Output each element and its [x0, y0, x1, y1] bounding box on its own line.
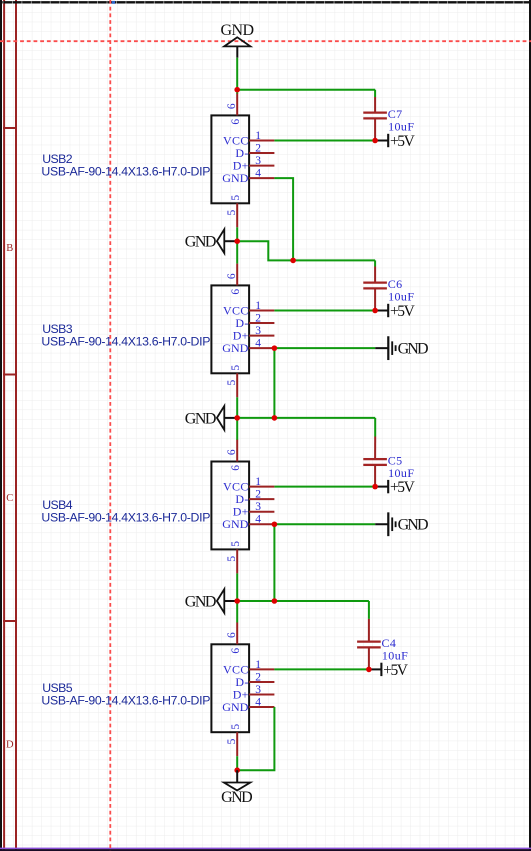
svg-text:5: 5 — [230, 365, 242, 371]
USB2 pin 6 stub — [236, 94, 238, 116]
junction C5/+5V/USB4 VCC — [372, 484, 378, 490]
capacitor C5 — [363, 459, 387, 465]
capacitor C7 top lead — [374, 97, 376, 113]
USB2 pin 4 stub — [249, 177, 274, 179]
USB2 pin 5 stub — [236, 203, 238, 227]
USB connector USB5 box — [211, 644, 249, 732]
svg-text:B: B — [6, 243, 13, 254]
wire: top GND to node A — [236, 58, 238, 90]
sheet frame right border — [529, 0, 531, 851]
svg-text:3: 3 — [255, 684, 261, 696]
svg-text:D: D — [6, 740, 14, 751]
USB5 pin 6 stub — [236, 623, 238, 645]
svg-text:2: 2 — [255, 671, 261, 683]
junction USB4 GND — [272, 521, 278, 527]
svg-text:GND: GND — [222, 341, 249, 355]
USB3 pin 2 stub — [249, 322, 274, 324]
USB5 pin 2 stub — [249, 681, 274, 683]
wire: node A to USB2 pin6 — [236, 90, 238, 94]
svg-text:4: 4 — [255, 338, 261, 350]
wire: USB3 VCC to C6/+5V — [274, 310, 375, 312]
svg-text:USB-AF-90-14.4X13.6-H7.0-DIP: USB-AF-90-14.4X13.6-H7.0-DIP — [41, 335, 210, 349]
USB3 pin 6 stub — [236, 264, 238, 286]
+5V supply symbol near C6 — [388, 303, 415, 320]
wire: USB5 pin5 to bottom node — [236, 756, 238, 770]
svg-text:+5V: +5V — [390, 303, 416, 320]
svg-text:3: 3 — [255, 325, 261, 337]
capacitor C4 bottom lead — [368, 647, 370, 669]
capacitor C5 top lead — [374, 437, 376, 460]
svg-text:6: 6 — [226, 103, 238, 109]
svg-text:2: 2 — [255, 489, 261, 501]
USB4 pin 1 stub — [249, 486, 274, 488]
junction C6/+5V/USB3 VCC — [372, 308, 378, 314]
svg-text:6: 6 — [230, 119, 242, 125]
USB4 pin 5 stub — [236, 549, 238, 573]
wire: node A to C7 branch — [237, 89, 375, 91]
wire: USB2 GND pin down to row B — [274, 178, 293, 260]
wire: USB2 pin5 to GND arrow node — [236, 227, 238, 241]
sheet frame left border — [0, 0, 2, 851]
svg-text:GND: GND — [222, 517, 249, 531]
+5V supply symbol near C4 — [381, 662, 408, 679]
junction row D / USB4 GND — [272, 598, 278, 604]
USB connector USB2 box — [211, 115, 249, 203]
capacitor C5 bottom lead — [374, 465, 376, 487]
frame inner red lines — [3, 0, 17, 851]
guide dashed vertical line — [109, 0, 111, 851]
USB3 pin 5 stub — [236, 373, 238, 397]
sheet frame bottom border — [0, 848, 531, 850]
svg-text:+5V: +5V — [390, 479, 416, 496]
ground symbol (top, arrow up) — [221, 22, 254, 58]
junction C7/+5V/USB2 VCC — [372, 138, 378, 144]
svg-text:5: 5 — [230, 195, 242, 201]
USB4 pin 3 stub — [249, 511, 274, 513]
wire: C7 top lead wire — [374, 90, 376, 97]
+5V supply symbol near C7 — [388, 133, 415, 150]
svg-text:1: 1 — [255, 476, 261, 488]
svg-text:2: 2 — [255, 142, 261, 154]
svg-text:6: 6 — [226, 449, 238, 455]
USB4 pin 2 stub — [249, 498, 274, 500]
ground symbol (arrow style, left) — [185, 229, 238, 253]
svg-text:USB-AF-90-14.4X13.6-H7.0-DIP: USB-AF-90-14.4X13.6-H7.0-DIP — [41, 165, 210, 179]
USB connector USB3 box — [211, 285, 249, 373]
ground symbol (arrow style, left) — [185, 406, 238, 430]
svg-text:4: 4 — [255, 168, 261, 180]
wire: USB4 GND to ground bar — [274, 523, 375, 525]
USB5 pin 3 stub — [249, 694, 274, 696]
svg-text:5: 5 — [226, 379, 238, 385]
junction node D (GND arrow 3) — [234, 598, 240, 604]
USB connector USB4 box — [211, 462, 249, 550]
svg-text:+5V: +5V — [383, 662, 409, 679]
wire: node C to USB4 pin6 — [236, 418, 238, 440]
+5V supply near C7 pin wire — [375, 140, 388, 142]
svg-text:5: 5 — [230, 541, 242, 547]
ground symbol (bar style) pin wire — [375, 523, 388, 525]
junction node C (GND arrow 2) — [234, 415, 240, 421]
ground symbol (arrow style, left) — [185, 589, 238, 613]
svg-text:1: 1 — [255, 659, 261, 671]
svg-text:6: 6 — [230, 289, 242, 295]
svg-text:GND: GND — [398, 517, 429, 534]
capacitor C7 bottom lead — [374, 118, 376, 140]
wire: USB3 GND to ground bar — [274, 347, 375, 349]
ground symbol (bar style) — [388, 512, 428, 536]
svg-text:GND: GND — [398, 341, 429, 358]
svg-text:USB-AF-90-14.4X13.6-H7.0-DIP: USB-AF-90-14.4X13.6-H7.0-DIP — [41, 511, 210, 525]
wire: C6 top lead wire — [374, 260, 376, 266]
wire: USB4 pin5 to node D — [236, 573, 238, 601]
junction node A (top) — [234, 87, 240, 93]
wire: USB4 GND down to row D — [273, 524, 275, 601]
svg-text:C: C — [6, 493, 13, 504]
junction row C / USB3 GND — [272, 415, 278, 421]
svg-text:6: 6 — [226, 273, 238, 279]
wire: USB4 VCC to C5/+5V — [274, 486, 375, 488]
USB5 pin 5 stub — [236, 732, 238, 756]
svg-text:6: 6 — [226, 632, 238, 638]
svg-text:GND: GND — [185, 410, 217, 427]
USB5 pin 1 stub — [249, 668, 274, 670]
capacitor C6 top lead — [374, 267, 376, 284]
capacitor C4 top lead — [368, 619, 370, 642]
wire: row C to C5 branch — [237, 417, 375, 419]
junction C4/+5V/USB5 VCC — [366, 667, 372, 673]
wire: USB3 GND down to row C — [273, 348, 275, 418]
capacitor C7 — [363, 113, 387, 119]
junction row B / USB2 GND — [290, 258, 296, 264]
wire: C4 top lead wire — [368, 601, 370, 619]
svg-text:+5V: +5V — [390, 133, 416, 150]
ground symbol (bar style) — [388, 336, 428, 360]
svg-text:3: 3 — [255, 155, 261, 167]
wire: USB3 pin5 to node C — [236, 397, 238, 418]
wire: node B to USB3 pin6 — [236, 241, 238, 263]
USB2 pin 2 stub — [249, 152, 274, 154]
sheet frame top border — [0, 1, 531, 3]
wire: row D to C4 branch — [237, 600, 369, 602]
svg-text:1: 1 — [255, 130, 261, 142]
wire: node D to USB5 pin6 — [236, 601, 238, 623]
+5V supply near C6 pin wire — [375, 310, 388, 312]
USB2 pin 3 stub — [249, 165, 274, 167]
wire: USB5 VCC to C4/+5V — [274, 668, 369, 670]
USB5 pin 4 stub — [249, 706, 274, 708]
+5V supply symbol near C5 — [388, 479, 415, 496]
svg-text:10uF: 10uF — [388, 466, 414, 480]
svg-text:6: 6 — [230, 648, 242, 654]
wire: C5 top lead wire — [374, 418, 376, 437]
svg-text:4: 4 — [255, 696, 261, 708]
USB2 pin 1 stub — [249, 140, 274, 142]
wire: USB5 GND down to bottom node — [237, 707, 274, 770]
svg-text:6: 6 — [230, 465, 242, 471]
wire: USB2 VCC to C7/+5V — [274, 140, 375, 142]
svg-text:5: 5 — [226, 738, 238, 744]
+5V supply near C4 pin wire — [369, 668, 382, 670]
capacitor C4 — [357, 642, 381, 648]
wire: row B to C6 branch — [237, 241, 375, 260]
junction USB3 GND — [272, 345, 278, 351]
USB4 pin 4 stub — [249, 523, 274, 525]
svg-text:10uF: 10uF — [388, 289, 414, 303]
ground symbol (bar style) pin wire — [375, 347, 388, 349]
svg-text:GND: GND — [222, 171, 249, 185]
USB4 pin 6 stub — [236, 440, 238, 462]
USB3 pin 4 stub — [249, 347, 274, 349]
svg-text:3: 3 — [255, 501, 261, 513]
svg-text:USB-AF-90-14.4X13.6-H7.0-DIP: USB-AF-90-14.4X13.6-H7.0-DIP — [41, 693, 210, 707]
USB3 pin 1 stub — [249, 310, 274, 312]
svg-text:5: 5 — [230, 724, 242, 730]
origin marker blue tick — [112, 1, 115, 4]
svg-text:5: 5 — [226, 209, 238, 215]
guide dashed horizontal line — [0, 40, 531, 42]
capacitor C6 — [363, 283, 387, 289]
svg-text:GND: GND — [185, 234, 217, 251]
svg-text:10uF: 10uF — [382, 648, 408, 662]
ground symbol (bottom, arrow down) — [221, 770, 253, 806]
svg-text:4: 4 — [255, 514, 261, 526]
USB3 pin 3 stub — [249, 335, 274, 337]
junction node B (GND arrow 1) — [234, 238, 240, 244]
svg-text:1: 1 — [255, 300, 261, 312]
capacitor C6 bottom lead — [374, 288, 376, 310]
svg-text:GND: GND — [221, 789, 253, 806]
svg-text:2: 2 — [255, 312, 261, 324]
+5V supply near C5 pin wire — [375, 486, 388, 488]
svg-text:GND: GND — [185, 593, 217, 610]
svg-text:10uF: 10uF — [388, 119, 414, 133]
svg-text:GND: GND — [222, 700, 249, 714]
svg-text:5: 5 — [226, 556, 238, 562]
junction bottom node — [234, 767, 240, 773]
